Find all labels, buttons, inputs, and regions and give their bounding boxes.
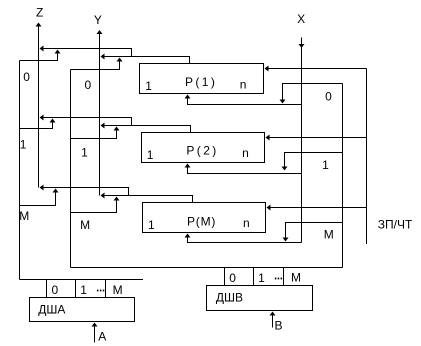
arrow row1 into P2 bottom (185, 164, 191, 168)
wire Y selector box top edge with stub (71, 61, 120, 70)
svg-text:0: 0 (52, 283, 59, 297)
svg-text:M: M (113, 283, 123, 297)
svg-text:n: n (242, 146, 249, 160)
arrow rowM into PM (267, 205, 271, 211)
register P(M) box (143, 203, 266, 233)
node DSHV cell dots (275, 278, 277, 280)
arrow row1 into Z (40, 115, 44, 121)
wire row0 line A from Z (41, 49, 132, 57)
svg-text:M: M (291, 271, 301, 285)
svg-text:1: 1 (80, 283, 87, 297)
svg-text:X: X (297, 12, 305, 26)
wire X selector divider rowM with stub (286, 223, 343, 238)
svg-text:M: M (19, 209, 29, 223)
wire Z selector divider row1 with stub (20, 122, 53, 129)
wire rowM line D from X with PM bottom stub (188, 238, 302, 243)
wire X selector box top edge with stub (283, 84, 343, 100)
wire rowM line B from Y to PM top (102, 196, 193, 203)
svg-text:ЗП/ЧТ: ЗП/ЧТ (378, 218, 413, 232)
wire X selector divider row1 with stub (285, 153, 343, 167)
svg-text:P(1): P(1) (185, 75, 217, 89)
svg-text:P(2): P(2) (186, 143, 218, 157)
svg-text:B: B (275, 318, 283, 332)
wire row1 line D from X with P2 bottom stub (188, 168, 302, 174)
arrow Z stub row1 up (50, 119, 56, 123)
register P(2) box (142, 133, 265, 163)
arrow Z stub row0 up (55, 50, 61, 54)
arrow B up (270, 312, 276, 316)
wire X selector box right edge (342, 84, 344, 268)
svg-text:0: 0 (325, 90, 332, 104)
wire DSHA cell divider c (105, 280, 107, 298)
arrow row0 into P1 (265, 66, 269, 72)
svg-text:1: 1 (81, 145, 88, 159)
wire DSHV cell divider a (224, 268, 226, 286)
svg-text:0: 0 (85, 78, 92, 92)
wire ZP/CHT right vertical (366, 69, 368, 245)
wire rowM line C into PM right (268, 207, 367, 209)
svg-text:M: M (324, 228, 334, 242)
svg-text:ДША: ДША (38, 303, 65, 317)
arrow Y stub rowM up (114, 197, 120, 201)
arrow X stub row0 down (280, 100, 286, 104)
arrow Y stub row1 up (114, 127, 120, 131)
wire row0 line D from X with P1 bottom stub (188, 99, 302, 105)
wire X vertical line (301, 38, 303, 243)
svg-text:1: 1 (258, 271, 265, 285)
svg-text:P(M): P(M) (187, 215, 216, 229)
wire row0 line C into P1 right (266, 68, 367, 70)
svg-text:1: 1 (148, 218, 155, 232)
wire row1 line A from Z (41, 118, 132, 126)
svg-text:ДШВ: ДШВ (216, 291, 243, 305)
arrow rowM into PM bottom (185, 234, 191, 238)
svg-text:n: n (243, 216, 250, 230)
arrow row0 into Y (101, 54, 105, 60)
wire Y selector divider rowM with stub (71, 200, 117, 213)
wire Z selector box top edge with stub (20, 53, 58, 61)
wire Y selector box left edge (70, 70, 72, 268)
arrow row1 into P2 (266, 135, 270, 141)
svg-text:0: 0 (229, 271, 236, 285)
wire B input arrow (272, 315, 274, 328)
wire Z selector box left edge (19, 61, 21, 280)
svg-text:M: M (80, 218, 90, 232)
wire Z vertical line (38, 27, 40, 188)
arrow X down (299, 44, 305, 48)
arrow Z stub rowM up (53, 189, 59, 193)
svg-text:1: 1 (20, 138, 27, 152)
wire rowM line A from Z (41, 188, 129, 196)
arrow row0 into P1 bottom (185, 95, 191, 99)
arrow X stub row1 down (282, 167, 288, 171)
svg-text:1: 1 (145, 79, 152, 93)
svg-text:0: 0 (23, 70, 30, 84)
arrow row1 into Y (101, 123, 105, 129)
arrow Y up (97, 30, 103, 34)
arrow A up (92, 323, 98, 327)
wire A input arrow (94, 326, 96, 343)
wire DSHV cell divider c (283, 268, 285, 286)
wire Z selector divider rowM with stub (20, 192, 56, 206)
arrow Y stub row0 up (117, 58, 123, 62)
svg-text:1: 1 (322, 158, 329, 172)
svg-text:A: A (98, 329, 106, 343)
wire long bottom line (71, 267, 343, 269)
register P(1) box (140, 64, 264, 94)
wire Y vertical line (99, 34, 101, 196)
wire DSHV cell divider b (253, 268, 255, 286)
wire row0 line B from Y to P1 top (102, 57, 190, 64)
wire DSHA bus line (20, 279, 144, 281)
svg-text:Z: Z (36, 6, 43, 20)
arrow Z up (36, 23, 42, 27)
wire row1 line C into P2 right (267, 137, 367, 139)
svg-text:1: 1 (147, 148, 154, 162)
wire DSHA cell divider a (46, 280, 48, 298)
arrow rowM into Y (101, 193, 105, 199)
wire Y selector divider row1 with stub (71, 130, 117, 139)
svg-text:n: n (240, 77, 247, 91)
arrow X stub rowM down (283, 238, 289, 242)
decoder DSHA box (30, 298, 135, 322)
decoder DSHV box (207, 286, 313, 311)
arrow rowM into Z (40, 185, 44, 191)
arrow row0 into Z (40, 46, 44, 52)
svg-text:Y: Y (94, 13, 102, 27)
wire DSHA cell divider b (75, 280, 77, 298)
wire row1 line B from Y to P2 top (102, 126, 191, 133)
node DSHA cell dots (97, 290, 99, 292)
